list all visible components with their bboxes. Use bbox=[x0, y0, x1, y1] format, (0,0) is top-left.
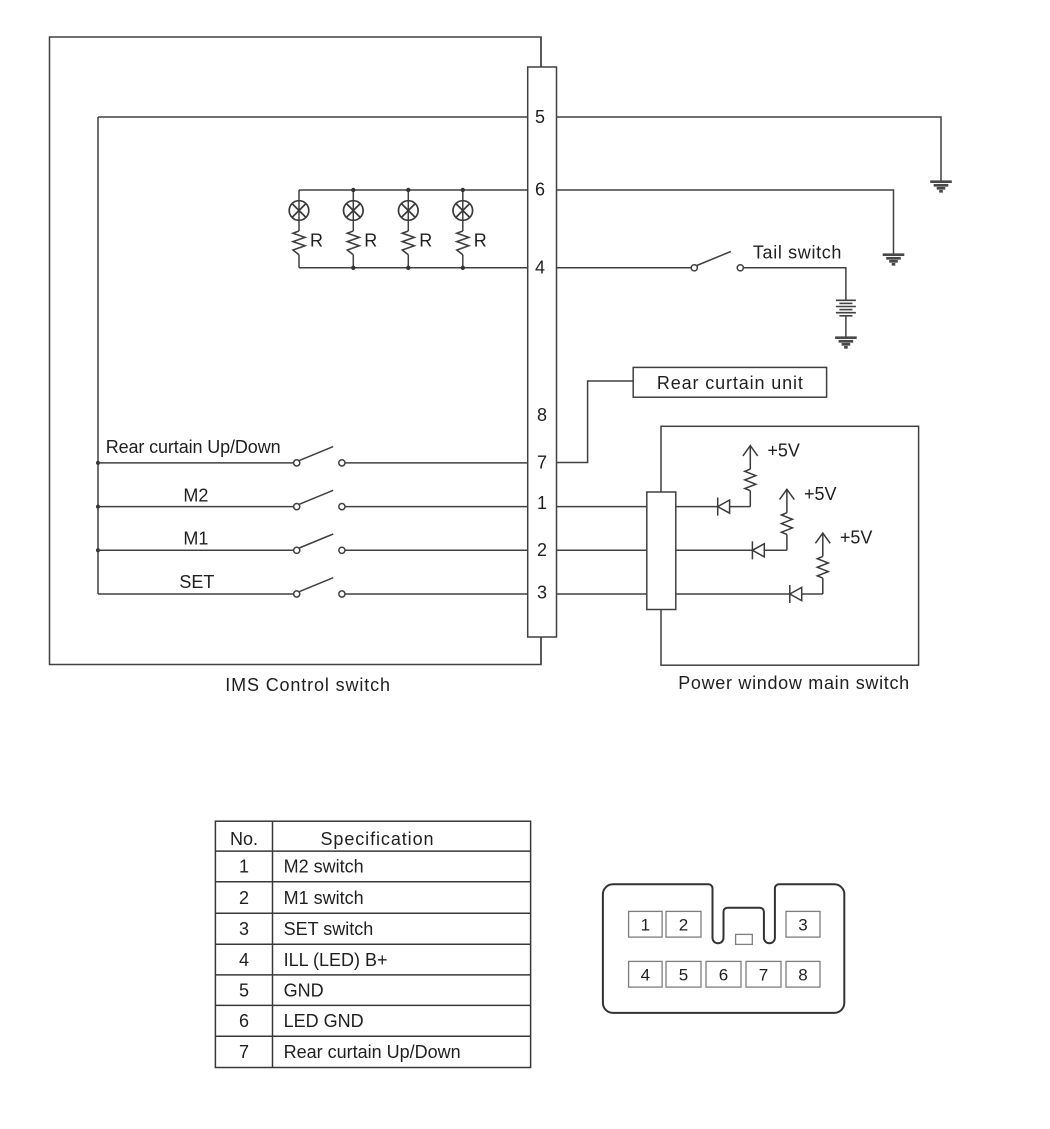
node rail4-L3 bbox=[406, 266, 410, 270]
wire connector to diode D2 bbox=[676, 549, 753, 551]
lamp L2 bbox=[344, 201, 364, 221]
svg-text:2: 2 bbox=[679, 916, 688, 935]
connector pin box 1 bbox=[629, 911, 663, 937]
svg-text:6: 6 bbox=[719, 966, 728, 985]
svg-text:5: 5 bbox=[239, 980, 249, 1000]
svg-text:4: 4 bbox=[641, 966, 650, 985]
svg-text:GND: GND bbox=[284, 980, 324, 1000]
svg-text:LED GND: LED GND bbox=[284, 1011, 364, 1031]
svg-text:6: 6 bbox=[239, 1011, 249, 1031]
svg-text:Tail switch: Tail switch bbox=[753, 243, 842, 263]
battery B1 bbox=[836, 300, 856, 316]
svg-text:M2: M2 bbox=[183, 485, 208, 505]
resistor R (L3) bbox=[402, 231, 414, 255]
lamp L1 bbox=[289, 201, 309, 221]
svg-text:5: 5 bbox=[679, 966, 688, 985]
ground G1 bbox=[930, 182, 952, 192]
svg-text:3: 3 bbox=[239, 919, 249, 939]
svg-text:2: 2 bbox=[239, 888, 249, 908]
svg-text:R: R bbox=[310, 231, 323, 251]
svg-text:7: 7 bbox=[537, 453, 547, 473]
node rail6-L2 bbox=[351, 188, 355, 192]
diode D3 bbox=[790, 585, 802, 603]
svg-text:4: 4 bbox=[535, 258, 545, 278]
svg-text:+5V: +5V bbox=[840, 528, 873, 548]
resistor/+5V pullup P2 bbox=[780, 489, 795, 550]
svg-text:8: 8 bbox=[798, 966, 807, 985]
lamp L2 branch wires bbox=[352, 190, 354, 268]
tail switch bbox=[691, 265, 697, 271]
wire pin3 to connector bbox=[557, 593, 647, 595]
connector pin box 3 bbox=[786, 911, 820, 937]
svg-text:Power window main switch: Power window main switch bbox=[678, 673, 909, 693]
wire stub from connector strip to box bottom bbox=[540, 637, 542, 665]
lamp L1 branch wires bbox=[298, 190, 300, 268]
svg-text:R: R bbox=[419, 231, 432, 251]
node rail4-L4 bbox=[461, 266, 465, 270]
svg-text:8: 8 bbox=[537, 405, 547, 425]
connector pin box 5 bbox=[666, 961, 701, 987]
svg-text:4: 4 bbox=[239, 950, 249, 970]
node bus-7 bbox=[96, 461, 100, 465]
svg-text:SET switch: SET switch bbox=[284, 919, 374, 939]
resistor R (L2) bbox=[347, 231, 359, 255]
svg-text:ILL (LED) B+: ILL (LED) B+ bbox=[284, 950, 388, 970]
wire pin6 right to ground bbox=[557, 190, 894, 254]
wire pin7 to rear curtain unit bbox=[557, 381, 634, 463]
wire pin5 right to ground bbox=[557, 117, 942, 181]
wire pin6 rail left bbox=[299, 189, 529, 191]
power window connector block bbox=[647, 492, 676, 610]
svg-text:1: 1 bbox=[239, 857, 249, 877]
svg-text:Rear curtain unit: Rear curtain unit bbox=[657, 373, 803, 393]
diode D1 bbox=[718, 498, 730, 516]
svg-text:3: 3 bbox=[798, 916, 807, 935]
lamp L3 bbox=[399, 201, 419, 221]
node rail6-L4 bbox=[461, 188, 465, 192]
connector strip (IMS connector) bbox=[528, 67, 557, 637]
svg-text:R: R bbox=[364, 231, 377, 251]
wire diode D3 to pullup bbox=[802, 593, 823, 595]
svg-text:7: 7 bbox=[759, 966, 768, 985]
svg-text:2: 2 bbox=[537, 540, 547, 560]
svg-text:3: 3 bbox=[537, 583, 547, 603]
svg-text:1: 1 bbox=[537, 493, 547, 513]
node bus-1 bbox=[96, 505, 100, 509]
svg-text:M1: M1 bbox=[183, 528, 208, 548]
IMS Control switch box bbox=[50, 37, 542, 665]
connector pin box 7 bbox=[746, 961, 781, 987]
svg-text:7: 7 bbox=[239, 1042, 249, 1062]
svg-text:M2 switch: M2 switch bbox=[284, 857, 364, 877]
switch SW2 M1 bbox=[98, 549, 294, 551]
resistor R (L1) bbox=[293, 231, 305, 255]
svg-text:SET: SET bbox=[179, 572, 214, 592]
wire tail switch to battery bbox=[743, 268, 846, 300]
ground G3 bbox=[835, 338, 857, 348]
switch SW7 Rear curtain Up/Down bbox=[98, 462, 294, 464]
wire battery to ground bbox=[845, 316, 847, 337]
connector center key bbox=[736, 934, 753, 944]
wire left bus vertical bbox=[97, 117, 99, 594]
ground G2 bbox=[883, 255, 905, 265]
resistor R (L4) bbox=[457, 231, 469, 255]
wire connector to diode D3 bbox=[676, 593, 790, 595]
node rail4-L2 bbox=[351, 266, 355, 270]
wire connector to diode D1 bbox=[676, 506, 718, 508]
power window main switch box bbox=[661, 426, 919, 665]
connector pin box 4 bbox=[629, 961, 663, 987]
wire pin2 to connector bbox=[557, 549, 647, 551]
specification table grid bbox=[215, 821, 530, 1067]
wire stub from box top to connector strip bbox=[540, 37, 542, 67]
node bus-2 bbox=[96, 548, 100, 552]
lamp L4 bbox=[453, 201, 473, 221]
svg-text:No.: No. bbox=[230, 829, 258, 849]
svg-text:IMS Control switch: IMS Control switch bbox=[225, 675, 390, 695]
svg-text:+5V: +5V bbox=[804, 484, 837, 504]
wire pin4 rail left bbox=[299, 267, 529, 269]
wire pin5 left to bus bbox=[98, 116, 529, 118]
wire diode D2 to pullup bbox=[764, 549, 787, 551]
switch SW1 M2 bbox=[98, 506, 294, 508]
connector pin box 6 bbox=[706, 961, 741, 987]
svg-text:M1 switch: M1 switch bbox=[284, 888, 364, 908]
svg-text:Rear curtain Up/Down: Rear curtain Up/Down bbox=[284, 1042, 461, 1062]
connector pin box 8 bbox=[786, 961, 820, 987]
svg-text:+5V: +5V bbox=[767, 440, 800, 460]
svg-text:6: 6 bbox=[535, 180, 545, 200]
wire pin4 right to tail switch bbox=[557, 267, 692, 269]
svg-text:R: R bbox=[474, 231, 487, 251]
switch SW3 SET bbox=[98, 593, 294, 595]
connector housing drawing bbox=[603, 884, 844, 1013]
resistor/+5V pullup P1 bbox=[743, 446, 758, 507]
svg-text:Specification: Specification bbox=[321, 829, 434, 849]
svg-text:5: 5 bbox=[535, 107, 545, 127]
lamp L3 branch wires bbox=[407, 190, 409, 268]
node rail6-L3 bbox=[406, 188, 410, 192]
rear curtain unit box bbox=[633, 367, 826, 397]
wire diode D1 to pullup bbox=[730, 506, 751, 508]
lamp L4 branch wires bbox=[462, 190, 464, 268]
connector pin box 2 bbox=[666, 911, 701, 937]
svg-text:1: 1 bbox=[641, 916, 650, 935]
wire pin1 to connector bbox=[557, 506, 647, 508]
diode D2 bbox=[752, 541, 764, 559]
svg-text:Rear curtain Up/Down: Rear curtain Up/Down bbox=[106, 437, 281, 457]
resistor/+5V pullup P3 bbox=[815, 533, 830, 594]
